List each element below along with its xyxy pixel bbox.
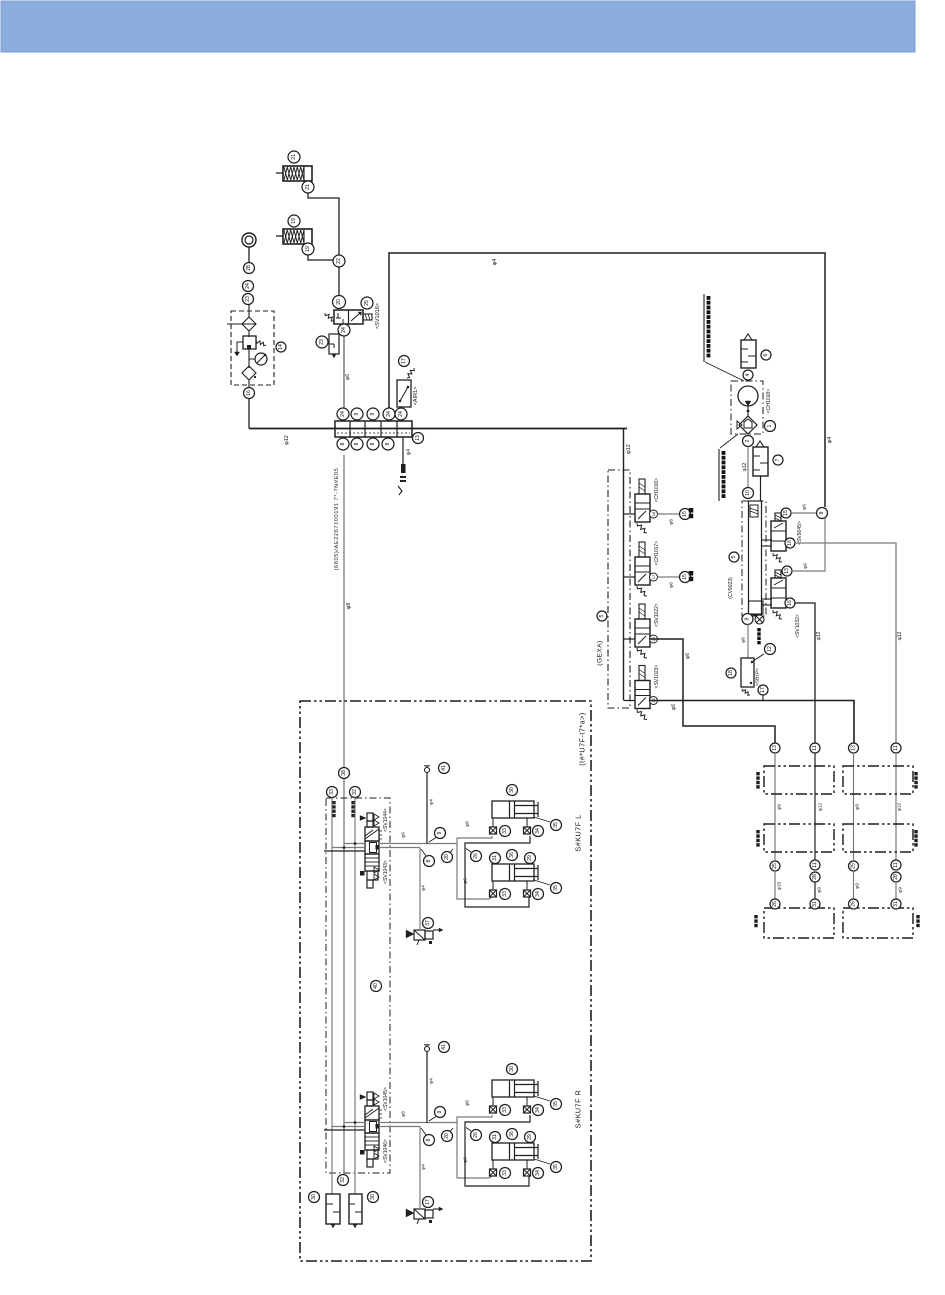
wire phi12 down to GEXA [623,429,625,701]
port circle 19b [302,243,314,255]
muffler cross port [755,615,764,624]
CV9023 port lines B [762,598,773,600]
hose valve to cylinders A2 [457,844,492,900]
tilt relief valve [423,1197,434,1208]
svg-text:φ6: φ6 [465,1100,471,1106]
svg-text:20: 20 [444,854,450,860]
cylinder ports lower [492,1160,494,1169]
svg-text:31: 31 [812,901,818,907]
junction circle 20 [450,1128,453,1132]
svg-text:φ4: φ4 [406,449,412,455]
svg-text:6: 6 [763,353,769,356]
svg-text:24: 24 [386,411,392,417]
filter label circle 14 [276,342,286,352]
hose valve B [379,847,420,849]
svg-text:<SV1032>: <SV1032> [795,614,801,638]
callout leader line [705,362,744,381]
svg-text:4: 4 [745,373,751,376]
svg-text:37: 37 [425,920,431,926]
node 13 col1 [770,743,780,753]
svg-text:22: 22 [336,258,342,264]
svg-text:38: 38 [341,770,347,776]
manifold bottom port 8a [337,438,349,450]
accumulator 30 left [309,1192,320,1203]
svg-text:28: 28 [246,265,252,271]
cylinder ports upper [492,818,494,827]
pressure switch AIR1 [397,380,411,407]
svg-text:φ9: φ9 [855,883,861,889]
cylinder 30 lower [492,864,534,881]
svg-text:φ6: φ6 [465,821,471,827]
hose valve to cylinders A [379,836,492,844]
svg-text:25: 25 [851,863,857,869]
pressure regulator [248,331,250,337]
svg-text:40: 40 [373,983,379,989]
svg-text:41: 41 [441,765,447,771]
manifold drain phi4 [402,437,404,464]
svg-text:<AIR1>: <AIR1> [413,387,419,406]
hose pump down [747,447,749,489]
svg-text:13: 13 [784,568,790,574]
svg-text:S#KU7F L: S#KU7F L [574,814,583,851]
cylinder ports upper [492,1097,494,1106]
svg-text:<SV1022>: <SV1022> [654,603,660,627]
tilt relief valve [423,918,434,929]
breather cap 18 [242,233,256,247]
svg-text:20: 20 [444,1133,450,1139]
valve port hoses left [344,843,365,845]
main air line phi12 [249,428,627,430]
CV9023 filter element [750,505,758,517]
pipe rod side [465,836,530,907]
svg-text:21: 21 [291,154,297,160]
svg-text:φ9: φ9 [898,887,904,893]
svg-text:19: 19 [305,246,311,252]
circle 32 bottom [338,1175,349,1186]
svg-text:33: 33 [502,828,508,834]
svg-text:φ6: φ6 [671,704,677,710]
cabin dash-dot box row3 right [843,908,913,938]
svg-text:φ12: φ12 [816,631,822,640]
blue header bar [1,1,915,52]
svg-text:35: 35 [553,1164,559,1170]
wire CH1016 out [658,513,681,515]
svg-text:<CH1017>: <CH1017> [654,541,660,565]
svg-text:φ6: φ6 [463,1157,469,1163]
fitting 28 [244,263,255,274]
svg-text:(t#*U7F-t7*a>): (t#*U7F-t7*a>) [578,712,587,766]
junction circle 8 [421,849,426,856]
regulator 23 [329,334,339,354]
svg-text:19: 19 [291,218,297,224]
hose SV9045 out [795,543,896,743]
svg-text:9: 9 [437,831,443,834]
hose col2 [814,753,816,860]
svg-text:(GEXA): (GEXA) [597,640,604,665]
svg-text:20: 20 [336,299,342,305]
svg-text:17: 17 [651,574,656,579]
solenoid valve SV1023 [624,700,636,702]
wire SB1P to line [762,695,764,701]
cylinder ports lower [492,881,494,890]
node 11 col2 [810,743,820,753]
fitting 23b [243,294,254,305]
hose labels [332,801,335,804]
wire node22 to valve20 [338,267,340,296]
svg-text:34: 34 [535,1107,541,1113]
svg-text:18: 18 [728,670,734,676]
circle 32 hose [350,787,361,798]
circle 5 GEXA [597,611,607,621]
port circle 24 [338,324,350,336]
hose col1 [774,753,776,860]
hose line left [331,798,333,1195]
svg-text:25: 25 [364,300,370,306]
svg-text:<SV1045>: <SV1045> [383,1087,389,1111]
circle 25 [361,297,373,309]
svg-text:φ4: φ4 [429,1078,435,1084]
pilot actuator SV1016 [363,314,372,320]
svg-text:<SV1016>: <SV1016> [375,303,381,329]
circle 2 [743,436,754,447]
svg-text:26: 26 [473,853,479,859]
grid circles col4 [891,860,901,870]
svg-text:φ4: φ4 [429,799,435,805]
hose valve to cylinders A [379,1115,492,1123]
svg-text:8: 8 [370,442,376,445]
svg-text:5: 5 [731,555,737,558]
junction circle 26 [466,849,471,853]
svg-text:14: 14 [278,344,284,350]
svg-text:23: 23 [319,339,325,345]
svg-text:2: 2 [745,439,751,442]
hose col4 [895,753,897,860]
manifold top port 9a [351,408,363,420]
gauge [248,349,250,368]
port circle 16 [248,380,250,388]
svg-text:10: 10 [745,490,751,496]
svg-text:25: 25 [772,863,778,869]
svg-text:29: 29 [527,855,533,861]
circle 38 [339,768,350,779]
check valve diamond top [248,304,250,318]
svg-text:φ12: φ12 [284,435,290,445]
accumulator 30 right [368,1192,379,1203]
manifold top port 24b [383,408,395,420]
hose col3 [853,753,855,860]
svg-text:φ9: φ9 [817,887,823,893]
svg-text:11: 11 [893,862,899,867]
label muffler [757,628,760,631]
svg-text:24: 24 [341,327,347,333]
svg-text:30: 30 [370,1194,376,1200]
cabin dash-dot box row2 right [843,824,913,852]
grid circles col1 [770,861,780,871]
svg-text:23: 23 [245,296,251,302]
svg-text:11: 11 [893,745,899,750]
inner dash-dot box [326,798,390,1173]
junction circle 26 [466,1128,471,1132]
hose valve to cylinders A2 [457,1123,492,1179]
svg-text:32: 32 [352,789,358,795]
svg-text:S#KU7F R: S#KU7F R [574,1090,583,1128]
hose to tilt valve [419,848,421,930]
svg-text:13: 13 [415,435,421,441]
pump circle [738,386,758,406]
svg-text:28: 28 [893,874,899,880]
vent fitting 41 [426,1045,428,1123]
svg-text:<SV9045>: <SV9045> [797,521,803,545]
svg-text:φ12: φ12 [742,462,748,471]
solenoid valve SV9045 [775,513,781,521]
grid side labels [756,772,759,775]
svg-text:28: 28 [812,874,818,880]
svg-text:φ6: φ6 [802,504,808,510]
flow divider diamond [739,416,757,434]
svg-text:φ12: φ12 [818,802,824,811]
check valve diamond bottom [242,366,256,380]
circles row [490,853,501,864]
node 22 [333,255,345,267]
svg-text:17: 17 [425,1199,431,1205]
filter unit dashed box [231,311,274,385]
node 11 col4 [891,743,901,753]
svg-text:φ12: φ12 [897,802,903,811]
junction circle 8 [421,1128,426,1135]
circle 4 [743,370,753,380]
svg-text:13: 13 [772,745,778,751]
svg-text:33: 33 [502,1107,508,1113]
circles row [490,1132,501,1143]
wire SV1022 out [650,639,775,743]
svg-text:8: 8 [340,442,346,445]
svg-text:9: 9 [437,1110,443,1113]
svg-text:φ9: φ9 [855,804,861,810]
svg-text:16: 16 [787,600,793,606]
svg-text:16: 16 [246,390,252,396]
hose SV1032 to node8 [792,518,825,571]
svg-text:9: 9 [745,617,751,620]
spring SV1016 [325,313,334,321]
muffler filter 19 [288,215,300,227]
pump to divider link [747,406,749,416]
svg-text:11: 11 [812,862,818,867]
vertical hose to lift box [343,455,345,1173]
svg-text:35: 35 [553,1101,559,1107]
svg-text:φ6: φ6 [685,653,691,659]
solenoid valve SV1016 [333,296,346,309]
manifold block [335,421,412,437]
svg-text:26: 26 [473,1132,479,1138]
svg-text:17: 17 [401,358,407,364]
svg-text:φ8: φ8 [346,603,352,610]
GEXA dash-dot box [608,470,630,708]
svg-text:(CV9023): (CV9023) [728,577,734,599]
proportional valve SV1045 [367,1092,373,1100]
svg-text:φ6: φ6 [669,582,675,588]
manifold bottom port 8c [367,438,379,450]
svg-text:φ6: φ6 [401,1111,407,1117]
svg-text:24: 24 [245,283,251,289]
junction circle 20 [450,849,453,853]
wire muffler21 to node22 [308,193,339,255]
svg-text:33: 33 [502,1170,508,1176]
svg-text:φ6: φ6 [463,878,469,884]
svg-text:φ9: φ9 [777,804,783,810]
cylinder 30 upper [492,801,534,818]
callout label block 2 [718,449,720,501]
svg-text:12: 12 [767,646,773,652]
svg-text:8: 8 [426,1138,432,1141]
CV9023 bottom cell [749,601,764,614]
svg-text:31: 31 [492,855,498,861]
solenoid valve SV1032 [775,570,781,578]
svg-text:φ6: φ6 [803,563,809,569]
node 8 [817,508,828,519]
solenoid valve CH1017 [624,576,636,578]
wire SV1023 out [650,701,854,744]
svg-text:9: 9 [354,412,360,415]
svg-text:7: 7 [775,458,781,461]
manifold bottom port 8b [351,438,363,450]
svg-text:41: 41 [441,1044,447,1050]
wire breather down [248,247,250,263]
svg-text:φ6: φ6 [669,519,675,525]
manifold top port 24 [337,408,349,420]
cylinder 30 lower [492,1143,534,1160]
svg-text:φ4: φ4 [492,259,498,266]
svg-text:15: 15 [682,511,688,517]
hose SV9045 to node 8 [791,512,817,514]
svg-text:34: 34 [535,891,541,897]
manifold bottom port 8d [382,438,394,450]
manifold top port 24c [395,408,407,420]
hose valve B [379,1126,420,1128]
svg-text:30: 30 [509,1066,515,1072]
cabin dash-dot box row3 left [764,908,834,938]
circle 40 [371,981,382,992]
svg-text:26: 26 [772,901,778,907]
svg-text:30: 30 [311,1194,317,1200]
svg-text:13: 13 [851,745,857,751]
cabin dash-dot box row2 left [764,824,834,852]
wire SV1032 out [795,603,815,743]
svg-text:<SV1046>: <SV1046> [383,1139,389,1163]
hose line right [354,798,356,1195]
solenoid valve CH1016 [624,513,636,515]
svg-text:φ6: φ6 [401,832,407,838]
wire CH1017 out [658,576,681,578]
hose to tilt valve [419,1127,421,1209]
circle 5 CV9023 [729,552,739,562]
svg-text:34: 34 [535,828,541,834]
svg-text:36: 36 [509,852,515,858]
port circle 21b [302,181,314,193]
valve 7 [753,447,768,476]
svg-text:<SV1043>: <SV1043> [383,860,389,884]
svg-text:<SB1P>: <SB1P> [755,668,761,686]
cylinder 30 upper [492,1080,534,1097]
grid circles col3 [849,861,859,871]
svg-text:34: 34 [535,1170,541,1176]
hose CV9023 to SB1P [747,624,749,658]
svg-text:8: 8 [819,511,825,514]
svg-text:26: 26 [851,901,857,907]
fitting 24b [243,281,254,292]
svg-text:φ4: φ4 [421,1164,427,1170]
CV9023 dash-dot box [742,501,766,616]
svg-text:φ12: φ12 [897,631,903,640]
pressure switch SB1P [741,658,754,687]
svg-text:<CH1016>: <CH1016> [654,478,660,502]
svg-text:15: 15 [682,574,688,580]
callout leader 2 [720,434,738,448]
wire filter to main line [248,399,250,429]
svg-text:35: 35 [553,822,559,828]
lift option dash-dot box [300,701,591,1261]
vent fitting 41 [426,766,428,844]
wire muffler19 to node22 [308,255,334,260]
svg-text:35: 35 [553,885,559,891]
svg-text:φ4: φ4 [827,437,833,444]
svg-text:φ12: φ12 [626,444,632,454]
solenoid valve SV1022 [624,638,636,640]
tank cross line [227,323,256,325]
svg-text:φ4: φ4 [421,885,427,891]
wire SV1016 to manifold [343,336,345,409]
svg-text:16: 16 [787,540,793,546]
pipe rod side [465,1115,530,1186]
CV9023 body [749,501,762,615]
svg-text:30: 30 [509,787,515,793]
svg-text:1: 1 [767,424,773,427]
svg-text:8: 8 [385,442,391,445]
junction circle 9 [429,1117,436,1122]
wire valve7 to CV9023 [760,476,762,501]
svg-text:φ6: φ6 [741,637,747,643]
CV9023 port lines A [762,539,773,541]
muffler filter 21 [288,151,300,163]
svg-text:15: 15 [783,510,789,516]
grid circles col2 [810,860,820,870]
svg-text:21: 21 [305,184,311,190]
pump dash-dot box CH1018 [731,381,763,434]
svg-text:24: 24 [398,411,404,417]
circle 13 manifold [413,433,424,444]
node 13 col3 [849,743,859,753]
svg-text:8: 8 [426,859,432,862]
svg-text:33: 33 [329,789,335,795]
valve port hoses left [344,1122,365,1124]
svg-text:31: 31 [893,901,899,907]
valve 6 [741,340,756,368]
svg-text:φ6: φ6 [345,374,351,380]
svg-text:<SV1044>: <SV1044> [383,808,389,832]
svg-text:33: 33 [502,891,508,897]
proportional valve SV1044 [367,813,373,821]
circle 33 hose [327,787,338,798]
svg-text:φ15: φ15 [777,881,783,890]
svg-text:36: 36 [509,1131,515,1137]
svg-text:24: 24 [340,411,346,417]
manifold top port 9b [367,408,379,420]
svg-text:<CH1018>: <CH1018> [766,389,772,413]
callout label block top [703,294,705,362]
svg-text:32: 32 [340,1177,346,1183]
junction circle 9 [429,838,436,843]
svg-text:29: 29 [527,1134,533,1140]
cabin dash-dot box row1 left [764,766,834,794]
